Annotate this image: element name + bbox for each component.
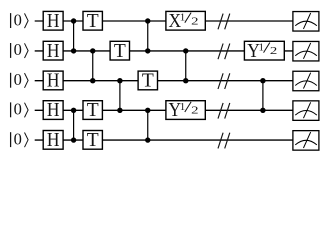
node CZ control dot q0 x=73.6 [71, 18, 76, 23]
node CZ control dot q2 x=119.9 [117, 78, 122, 83]
svg-text:0: 0 [14, 10, 22, 29]
wire CZ connector q0-q1 x=147.75 [147, 21, 149, 51]
gate T q4 [83, 130, 102, 151]
svg-text:1: 1 [259, 41, 265, 53]
svg-text:T: T [142, 71, 154, 92]
node CZ control dot q4 x=73.6 [71, 137, 76, 142]
svg-text:2: 2 [191, 105, 198, 117]
node CZ control dot q4 x=147.75 [145, 137, 150, 142]
svg-text:T: T [87, 130, 99, 151]
node CZ control dot q1 x=92.75 [90, 48, 95, 53]
node ket |0> q3 [11, 100, 29, 119]
svg-text:H: H [47, 11, 60, 32]
svg-text:T: T [87, 11, 99, 32]
wire CZ connector q1-q2 x=185.75 [185, 51, 187, 81]
svg-text:T: T [114, 41, 126, 62]
node CZ control dot q2 x=262.9 [260, 78, 265, 83]
svg-text:0: 0 [14, 129, 22, 148]
gate H q4 [43, 130, 63, 151]
gate Y^1/2 q1 [244, 41, 284, 62]
svg-text:0: 0 [14, 70, 22, 89]
node CZ control dot q3 x=73.6 [71, 108, 76, 113]
node CZ control dot q2 x=92.75 [90, 78, 95, 83]
gate H q3 [43, 100, 63, 121]
node ket |0> q2 [11, 70, 29, 89]
wire CZ connector q3-q4 x=73.6 [73, 110, 75, 140]
meter measurement q4 [293, 131, 319, 151]
wire q0 [35, 20, 293, 22]
quantum circuit diagram [0, 0, 329, 161]
gate T q1 [110, 41, 129, 62]
node ket |0> q4 [11, 129, 29, 148]
svg-text:1: 1 [180, 101, 186, 113]
node CZ control dot q1 x=147.75 [145, 48, 150, 53]
svg-text:0: 0 [14, 40, 22, 59]
gate Y^1/2 q3 [166, 100, 205, 121]
svg-text:0: 0 [14, 100, 22, 119]
wire CZ connector q1-q2 x=92.75 [92, 51, 94, 81]
node ket |0> q0 [11, 10, 29, 29]
wire CZ connector q2-q3 x=262.9 [262, 81, 264, 111]
wire cut slashes q4 [218, 133, 230, 149]
svg-text:H: H [47, 41, 60, 62]
wire cut slashes q0 [218, 14, 230, 30]
node CZ control dot q3 x=119.9 [117, 108, 122, 113]
svg-text:2: 2 [270, 45, 277, 57]
node CZ control dot q3 x=147.75 [145, 108, 150, 113]
wire cut slashes q3 [218, 103, 230, 119]
gate H q0 [43, 11, 63, 32]
wire CZ connector q2-q3 x=119.9 [119, 81, 121, 111]
node CZ control dot q0 x=147.75 [145, 18, 150, 23]
svg-text:1: 1 [180, 12, 186, 24]
wire q3 [35, 109, 293, 111]
node CZ control dot q2 x=185.75 [183, 78, 188, 83]
wire cut slashes q1 [218, 44, 230, 60]
wire CZ connector q3-q4 x=147.75 [147, 110, 149, 140]
svg-text:H: H [47, 130, 60, 151]
gate X^1/2 q0 [166, 11, 205, 32]
wire CZ connector q0-q1 x=73.6 [73, 21, 75, 51]
wire q4 [35, 139, 293, 141]
gate H q2 [43, 71, 63, 92]
svg-text:H: H [47, 71, 60, 92]
wire q2 [35, 80, 293, 82]
gate H q1 [43, 41, 63, 62]
gate T q3 [83, 100, 102, 121]
meter measurement q1 [293, 41, 319, 61]
svg-text:T: T [87, 100, 99, 121]
node ket |0> q1 [11, 40, 29, 59]
node CZ control dot q1 x=73.6 [71, 48, 76, 53]
svg-text:2: 2 [191, 15, 198, 27]
gate T q2 [138, 71, 157, 92]
gate T q0 [83, 11, 102, 32]
wire q1 [35, 50, 293, 52]
meter measurement q2 [293, 71, 319, 91]
wire cut slashes q2 [218, 73, 230, 89]
node CZ control dot q1 x=185.75 [183, 48, 188, 53]
meter measurement q3 [293, 101, 319, 121]
node CZ control dot q3 x=262.9 [260, 108, 265, 113]
svg-text:H: H [47, 100, 60, 121]
meter measurement q0 [293, 12, 319, 32]
